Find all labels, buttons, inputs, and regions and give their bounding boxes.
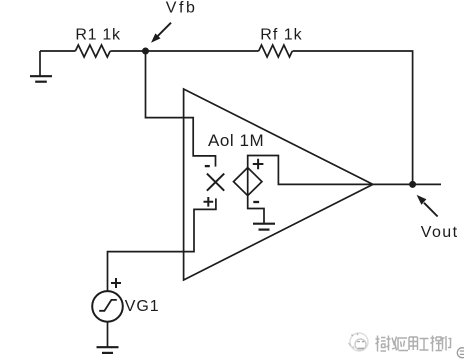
svg-text:VG1: VG1 <box>125 298 160 315</box>
svg-text:Vout: Vout <box>421 224 459 241</box>
svg-text:R1 1k: R1 1k <box>75 27 121 44</box>
svg-text:Aol 1M: Aol 1M <box>208 131 264 150</box>
svg-text:Rf 1k: Rf 1k <box>260 27 302 44</box>
svg-text:Vfb: Vfb <box>166 0 198 17</box>
